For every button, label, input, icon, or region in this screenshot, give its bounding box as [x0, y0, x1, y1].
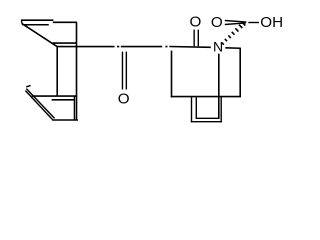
bond: cage bottom horizontal 2 [52, 99, 76, 101]
bond: cage upper-left diagonal [22, 24, 57, 47]
bond: bridge square left outer vertical [191, 97, 193, 122]
bond: cage lower-left diagonal lower [25, 91, 53, 121]
bond: N bridge vertical [218, 54, 220, 119]
bond: cage bottom-left wavy dash [26, 85, 30, 87]
bond: cage top-left vertex connector [20, 20, 23, 24]
bond: cage lowest horizontal [54, 119, 79, 121]
double bond C2=O2 (amide) line a [193, 30, 195, 47]
bond: cage lower-left diagonal upper [26, 89, 54, 119]
double bond C3=O3 (carboxyl) upper line [225, 21, 247, 23]
bond: cage upper inner horizontal [53, 42, 77, 44]
bond: bridge square inner bottom horizontal [196, 117, 220, 119]
bond: cage top back edge [21, 19, 53, 21]
svg-text:O: O [189, 14, 201, 31]
double bond C1=O1 line b [125, 52, 127, 90]
svg-text:O: O [211, 14, 223, 31]
svg-text:O: O [118, 90, 130, 107]
bond: ring left vertical [171, 51, 173, 98]
bond: cage front-right vertical [76, 22, 78, 120]
bond: bridge square right outer vertical [220, 97, 222, 122]
double bond C2=O2 (amide) line b [197, 30, 199, 47]
bond: bridge square left inner vertical [195, 97, 197, 119]
double bond C1=O1 line a [121, 52, 123, 90]
bond: C3 to OH [248, 22, 259, 24]
bond: cage back-right vertical [73, 96, 75, 120]
svg-text:N: N [213, 39, 223, 55]
hashed wedge stereo bond N to C3 [222, 23, 245, 45]
bond: chain wavy-bond dash 2 [165, 46, 167, 48]
bond: ring right vertical [239, 48, 241, 97]
bond: cage second back edge [22, 24, 49, 26]
double bond C3=O3 (carboxyl) lower line [225, 23, 246, 25]
bond: chain segment 1 (cage to ketone C) [57, 46, 115, 48]
bond: ring bottom edge [171, 96, 241, 98]
bond: cage bottom horizontal 1 [32, 95, 78, 97]
bond: ring top edge left piece (C to C2 to N) [169, 46, 211, 49]
bond: bridge square outer bottom horizontal [191, 121, 222, 123]
bond: ring top edge right piece (N to corner) [225, 47, 241, 49]
svg-text:OH: OH [260, 14, 283, 31]
bond: cage top front edge [53, 21, 77, 23]
bond: cage front-left vertical [56, 46, 58, 96]
bond: chain segment 2 (ketone C to ring C) [121, 46, 162, 48]
bond: chain wavy-bond dash 1 [117, 46, 119, 48]
